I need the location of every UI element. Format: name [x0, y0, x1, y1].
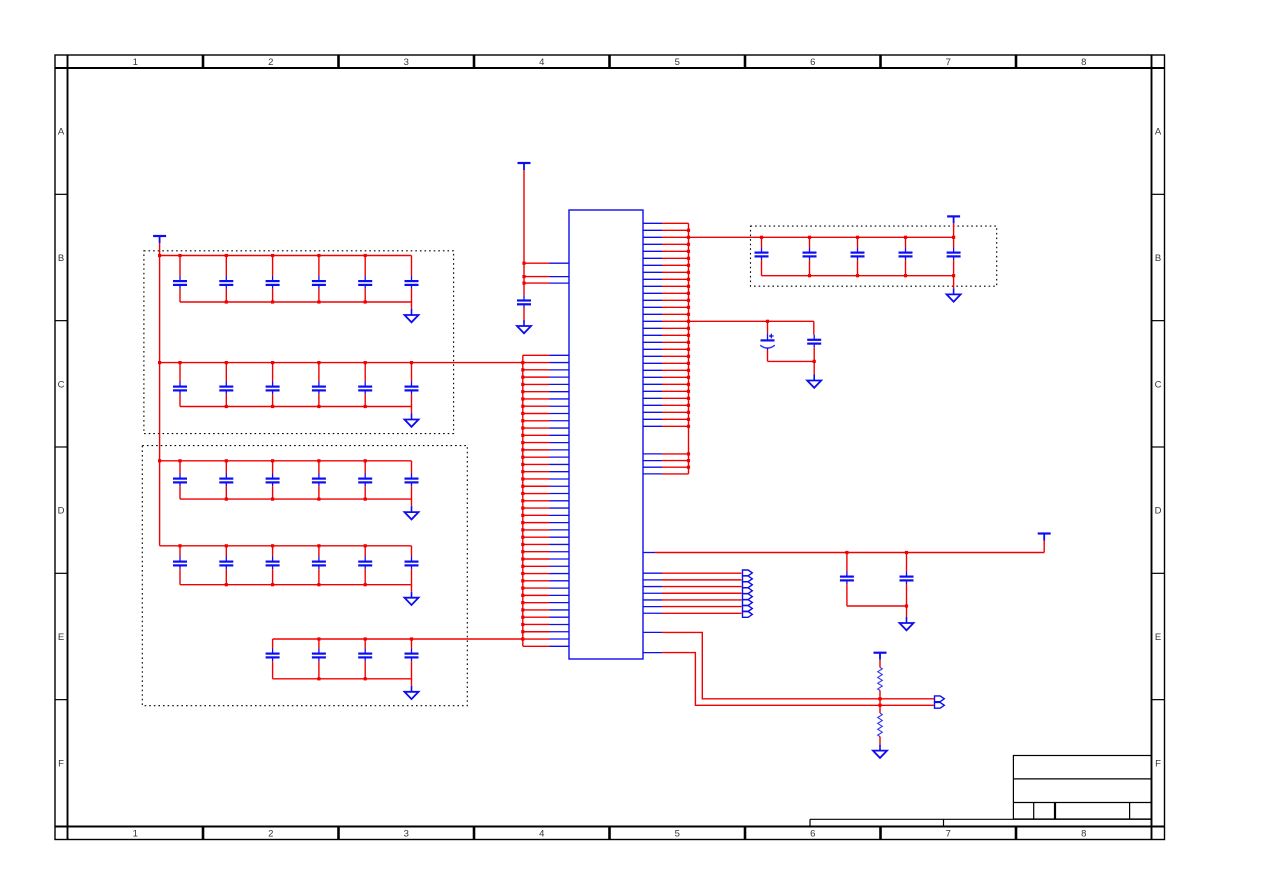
svg-text:2: 2: [268, 829, 273, 840]
svg-text:F: F: [58, 758, 64, 769]
svg-text:A: A: [1155, 127, 1162, 138]
wire: [953, 276, 955, 289]
svg-text:E: E: [1155, 632, 1161, 643]
wire: [273, 677, 412, 680]
off-page connector J3: [935, 702, 945, 708]
capacitor C9: [219, 363, 233, 407]
wire: [953, 223, 955, 237]
wire: [180, 498, 412, 501]
ground: [405, 309, 419, 322]
wire: [180, 300, 412, 303]
wire: [1043, 540, 1045, 553]
wire: [523, 355, 550, 646]
capacitor C8: [173, 363, 187, 407]
resistor R1: [878, 667, 883, 690]
wire: [273, 637, 523, 640]
svg-text:C: C: [58, 379, 65, 390]
ground: [405, 414, 419, 427]
svg-text:B: B: [58, 253, 64, 264]
pin: [550, 262, 570, 264]
wire: [524, 282, 550, 284]
capacitor C35 (electrolytic): [760, 321, 775, 361]
capacitor C26: [266, 639, 280, 679]
wire: [768, 360, 816, 363]
svg-text:D: D: [1155, 506, 1162, 517]
capacitor C1: [517, 295, 531, 308]
svg-text:8: 8: [1081, 57, 1086, 68]
wire: [524, 262, 550, 264]
capacitor C11: [312, 363, 326, 407]
wire: [411, 407, 413, 414]
capacitor C12: [358, 363, 372, 407]
svg-text:4: 4: [539, 829, 544, 840]
capacitor C34: [947, 237, 961, 275]
wire: [180, 405, 412, 408]
capacitor C15: [219, 461, 233, 499]
svg-text:7: 7: [946, 829, 951, 840]
wire: [879, 660, 881, 668]
capacitor C5: [312, 256, 326, 303]
wire: [689, 320, 814, 323]
wire: [411, 679, 413, 686]
capacitor C30: [755, 237, 769, 275]
capacitor C7: [405, 256, 419, 303]
pin: [550, 355, 570, 646]
capacitor C2: [173, 256, 187, 303]
capacitor C18: [358, 461, 372, 499]
capacitor C29: [405, 639, 419, 679]
capacitor C31: [803, 237, 817, 275]
pin: [643, 573, 662, 613]
wire: [813, 361, 815, 374]
capacitor C6: [358, 256, 372, 303]
svg-text:A: A: [58, 127, 65, 138]
wire: [847, 604, 908, 607]
wire: [879, 737, 881, 745]
svg-text:7: 7: [946, 57, 951, 68]
svg-text:4: 4: [539, 57, 544, 68]
wire: [521, 355, 524, 646]
wire: [689, 236, 956, 239]
capacitor C16: [266, 461, 280, 499]
capacitor C24: [358, 546, 372, 585]
ground: [807, 375, 821, 388]
wire: [879, 690, 881, 713]
wire: [523, 308, 525, 320]
wire: [662, 223, 689, 474]
svg-text:1: 1: [133, 829, 138, 840]
wire: [411, 499, 413, 506]
capacitor C13: [405, 363, 419, 407]
pin: [643, 223, 662, 474]
power symbol VCC5: [874, 653, 887, 660]
capacitor C28: [358, 639, 372, 679]
wire: [411, 585, 413, 592]
ground: [873, 745, 887, 758]
ground: [517, 320, 531, 333]
svg-text:B: B: [1155, 253, 1161, 264]
svg-text:6: 6: [810, 829, 815, 840]
capacitor C25: [405, 546, 419, 585]
wire: [522, 170, 525, 295]
capacitor C21: [219, 546, 233, 585]
power symbol VCC2: [153, 236, 166, 243]
svg-text:F: F: [1155, 758, 1161, 769]
wire: [411, 302, 413, 309]
wire: [906, 606, 908, 617]
power symbol VCC3: [947, 216, 960, 223]
ground: [405, 686, 419, 699]
capacitor C37: [840, 553, 854, 607]
pin: [550, 282, 570, 284]
svg-text:E: E: [58, 632, 64, 643]
ground: [405, 506, 419, 519]
wire: [662, 573, 742, 613]
capacitor C32: [851, 237, 865, 275]
capacitor C4: [266, 256, 280, 303]
capacitor C33: [899, 237, 913, 275]
capacitor C27: [312, 639, 326, 679]
drawing frame, rulers and title block: [55, 55, 1165, 840]
capacitor C14: [173, 461, 187, 499]
wire: [160, 361, 523, 364]
wire: [687, 223, 690, 474]
svg-text:6: 6: [810, 57, 815, 68]
op-amp U1 (main IC body): [569, 210, 643, 659]
wire: [662, 632, 934, 700]
ground: [900, 617, 914, 630]
pin: [643, 652, 662, 654]
svg-text:5: 5: [675, 57, 680, 68]
ground: [405, 592, 419, 605]
wire: [524, 276, 550, 278]
dotted group box 1: [144, 251, 454, 434]
power symbol VCC4: [1038, 534, 1051, 541]
capacitor C3: [219, 256, 233, 303]
wire: [160, 544, 412, 547]
pin: [643, 552, 655, 554]
capacitor C10: [266, 363, 280, 407]
wire: [180, 583, 412, 586]
ground: [947, 288, 961, 301]
off-page connectors J1: [743, 570, 753, 617]
svg-text:5: 5: [675, 829, 680, 840]
capacitor C17: [312, 461, 326, 499]
pin: [643, 631, 662, 633]
wire: [160, 459, 412, 462]
capacitor C20: [173, 546, 187, 585]
pin: [550, 276, 570, 278]
capacitor C19: [405, 461, 419, 499]
capacitor C23: [312, 546, 326, 585]
svg-text:3: 3: [404, 829, 409, 840]
power symbol VCC1: [518, 163, 531, 170]
capacitor C22: [266, 546, 280, 585]
wire: [158, 243, 161, 546]
wire: [160, 254, 412, 257]
dotted group box 3: [751, 226, 997, 286]
svg-text:2: 2: [268, 57, 273, 68]
wire: [762, 274, 956, 277]
resistor R2: [878, 713, 883, 737]
capacitor C38: [900, 553, 914, 607]
wire: [662, 653, 934, 707]
capacitor C36: [807, 321, 821, 361]
svg-text:D: D: [58, 506, 65, 517]
dotted group box 2: [142, 446, 467, 706]
svg-text:3: 3: [404, 57, 409, 68]
off-page connector J2: [935, 696, 945, 702]
svg-text:C: C: [1155, 379, 1162, 390]
wire: [655, 551, 1044, 554]
svg-text:8: 8: [1081, 829, 1086, 840]
svg-text:1: 1: [133, 57, 138, 68]
